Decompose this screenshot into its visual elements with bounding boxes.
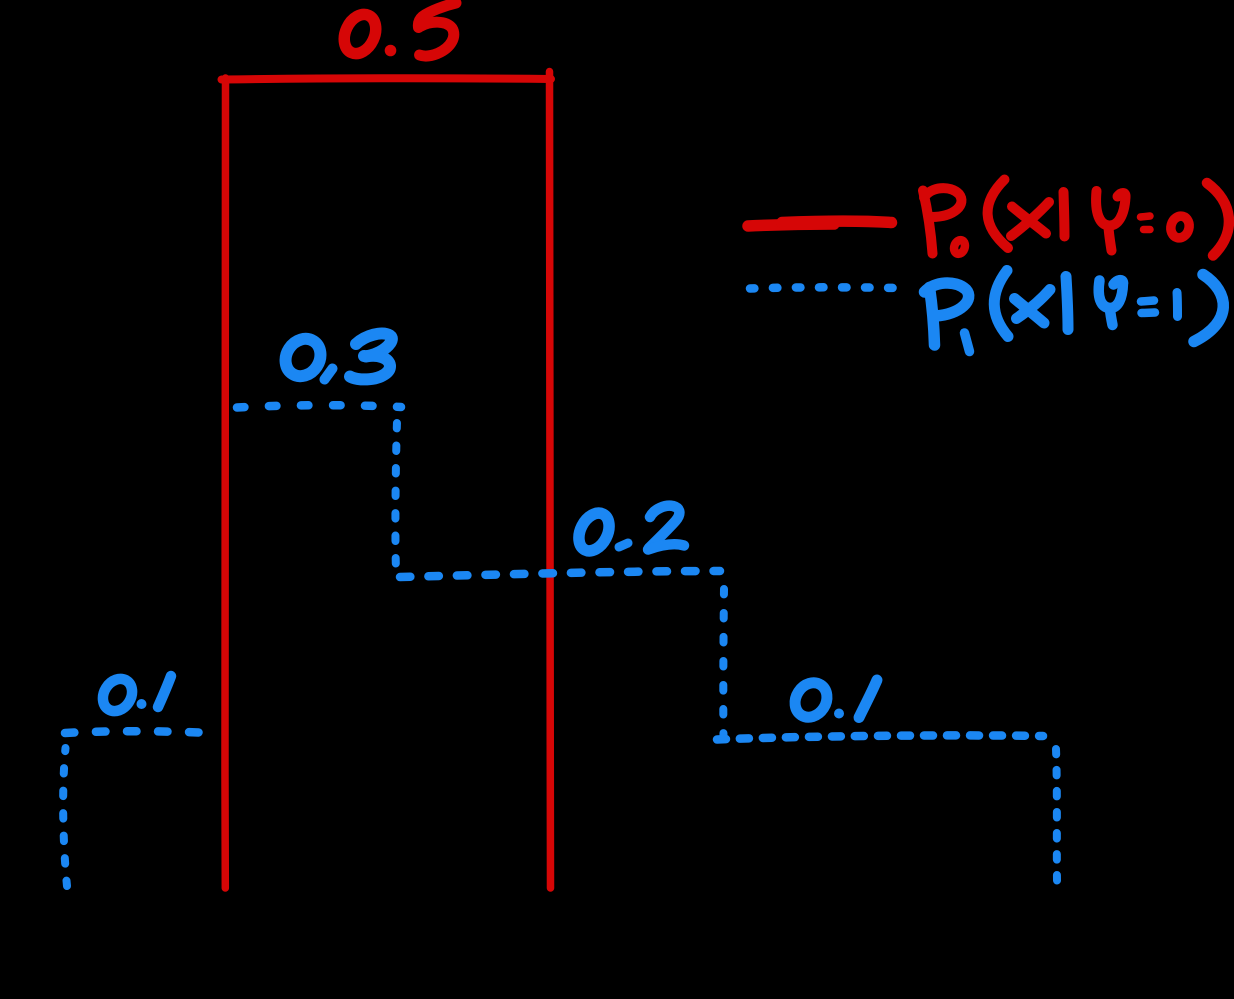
legend blue text: digit 1 <box>1173 293 1183 317</box>
legend blue text: equals sign <box>1141 301 1155 314</box>
legend blue text P1(x|Y=1): letter P <box>925 283 969 345</box>
legend blue text: subscript 1 <box>965 333 970 352</box>
blue P1 step: 0.3 horizontal dashed segment <box>237 405 401 407</box>
legend red text: digit 0 <box>1168 214 1191 240</box>
red histogram P0: top edge <box>222 78 552 79</box>
legend red text: equals sign <box>1141 216 1151 230</box>
legend blue text: open paren <box>994 271 1008 337</box>
blue P1 step: 0.1 left horizontal dashed segment <box>65 731 200 733</box>
blue P1 step: 0.1 right horizontal dashed segment <box>717 735 1043 739</box>
legend red text: letter Y <box>1096 191 1125 251</box>
legend: blue dotted line sample <box>750 287 897 288</box>
legend blue text: letter Y <box>1099 280 1123 325</box>
legend red text: subscript 0 <box>952 239 967 256</box>
legend red text: letter x <box>1011 202 1049 236</box>
legend: red solid line sample <box>748 221 892 226</box>
blue P1 step: right vertical dashed segment <box>1056 749 1057 881</box>
red label 0.5: decimal point <box>385 45 397 57</box>
blue P1 step: vertical dashed from 0.3 to 0.2 <box>395 422 397 564</box>
blue label 0.3: digit 3 <box>350 334 392 380</box>
red histogram P0: left edge <box>221 78 229 888</box>
blue P1 step: left vertical dashed segment <box>63 748 67 886</box>
legend blue text: letter x <box>1015 290 1051 324</box>
legend blue text: close paren <box>1194 275 1223 342</box>
legend red text: close paren <box>1207 183 1229 256</box>
red label 0.5: digit 0 <box>338 9 382 58</box>
blue label 0.2: digit 0 <box>573 508 615 556</box>
blue label 0.3: digit 0 <box>279 332 328 383</box>
legend red text: vertical bar <box>1064 192 1065 237</box>
blue label 0.1 right: digit 0 <box>789 677 834 724</box>
blue P1 step: vertical dashed from 0.2 to 0.1 <box>719 589 728 737</box>
blue label 0.1 left: digit 0 <box>97 673 138 716</box>
legend red text: open paren <box>988 180 1008 249</box>
legend blue text: vertical bar <box>1066 277 1068 330</box>
red label 0.5: digit 5 <box>418 3 456 56</box>
blue label 0.3: comma <box>325 369 333 380</box>
blue label 0.1 left: digit 1 <box>158 676 171 707</box>
red histogram P0: right edge <box>550 72 551 889</box>
legend red text P0(x|Y=0): letter P <box>923 188 961 253</box>
blue label 0.1 left: decimal point <box>137 699 147 709</box>
blue label 0.1 right: digit 1 <box>859 680 877 718</box>
blue label 0.1 right: decimal point <box>834 709 844 719</box>
blue label 0.2: digit 2 <box>648 506 684 550</box>
blue label 0.2: decimal tick <box>619 543 628 547</box>
blue P1 step: 0.2 horizontal dashed segment <box>400 571 720 577</box>
